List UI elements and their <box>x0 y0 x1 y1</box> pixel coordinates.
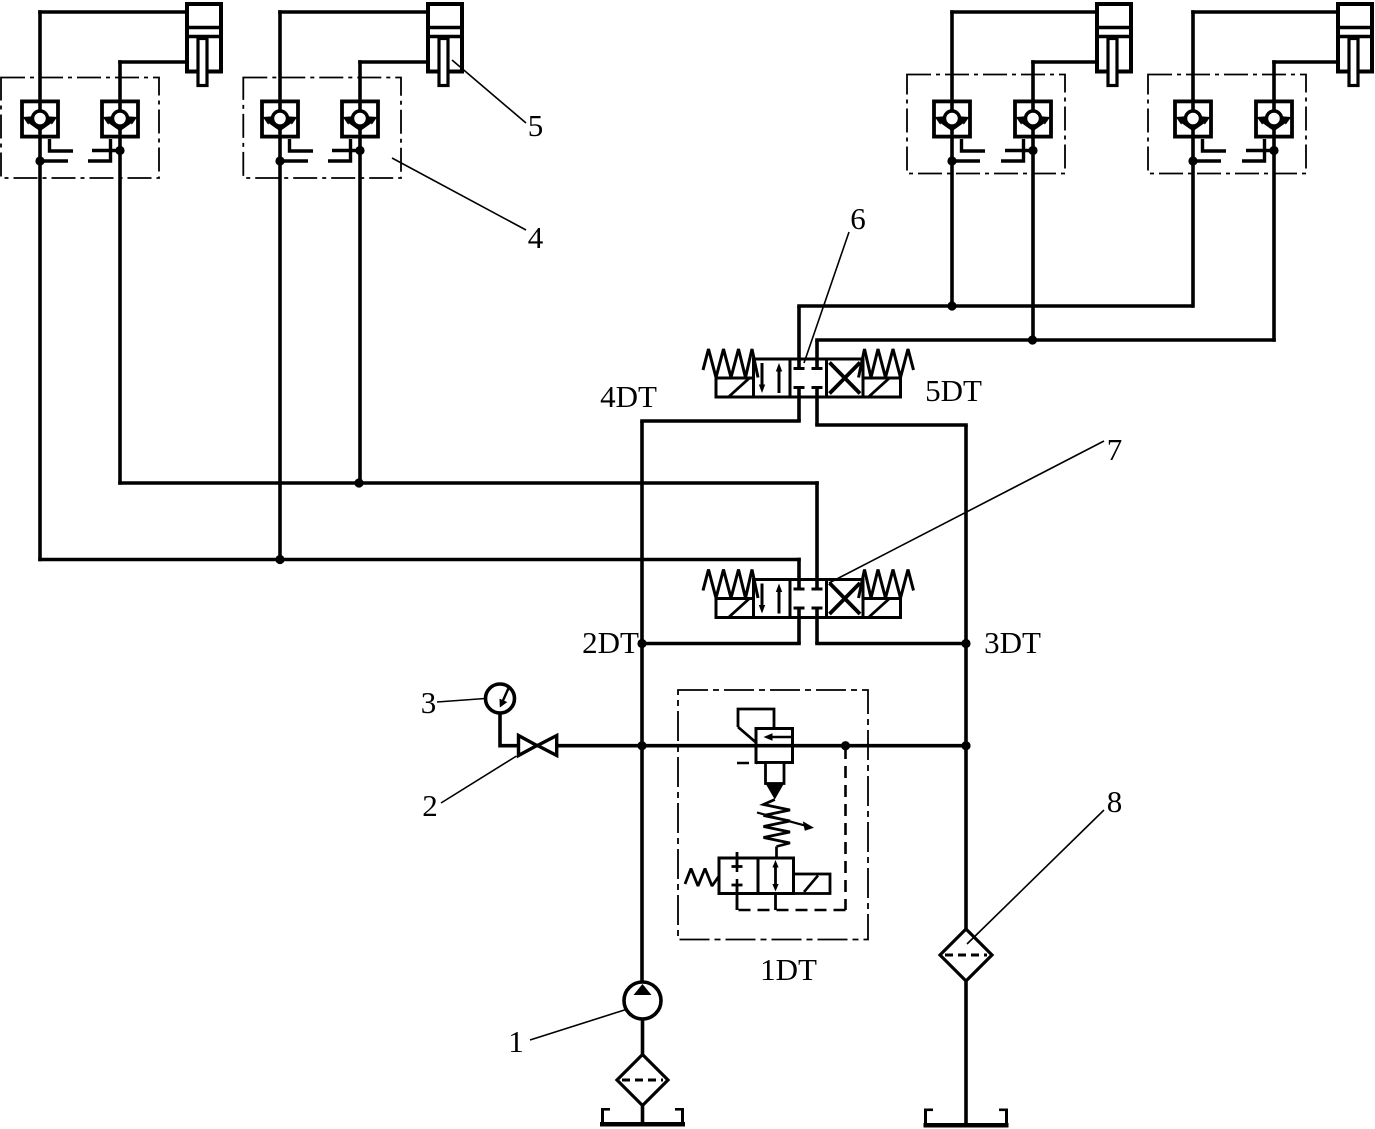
label 1 leader <box>530 1010 626 1041</box>
pilot line C lower-left <box>952 159 980 162</box>
svg-text:1: 1 <box>508 1024 524 1059</box>
unload solenoid 1DT <box>794 874 831 894</box>
wire cyl1 rod-side down <box>38 10 42 561</box>
unload valve body <box>719 858 794 894</box>
label 4DT <box>600 379 657 414</box>
unload valve arrow <box>772 860 778 892</box>
svg-text:3DT: 3DT <box>984 625 1041 660</box>
check valve D-right <box>1256 101 1292 136</box>
spring 7 (lower) left <box>703 570 758 599</box>
shut-off valve 2 <box>519 736 557 756</box>
label 2 <box>422 788 438 823</box>
wire cyl2 rod-side down <box>278 10 282 559</box>
wire valve6 A up+across <box>797 306 1194 369</box>
pilot line B upper-right <box>332 149 360 152</box>
pilot line B lower-right <box>328 139 351 161</box>
junction dot B right main <box>355 146 364 155</box>
junction dot C right main <box>1028 146 1037 155</box>
valve 6 (upper) body <box>754 359 864 397</box>
return filter 8 <box>940 929 992 981</box>
node 3DT junction <box>961 639 970 648</box>
relief cone <box>766 784 785 800</box>
suction filter <box>617 1055 668 1106</box>
wire cyl2 head-side down <box>358 60 362 483</box>
check valve B-right <box>342 101 378 136</box>
pilot line dashed <box>737 747 846 910</box>
label 6 leader <box>804 232 849 363</box>
wire 4 (top-right) bottom port <box>1272 60 1339 64</box>
wire cyl4 head-side down <box>1272 60 1276 342</box>
valve 7 (lower) center-position blocked ports <box>794 580 823 618</box>
junction dot D left main <box>1188 156 1197 165</box>
wire 3 bottom port <box>1031 60 1098 64</box>
junction dot C left main <box>947 156 956 165</box>
label 3 leader <box>437 699 485 703</box>
label 4 <box>528 220 544 255</box>
wire valve7 T to return <box>815 608 966 644</box>
hydraulic lock box B <box>243 78 401 179</box>
valve 7 (lower) right-position crossed arrows <box>830 583 861 614</box>
wire 1 (top-left) top port <box>38 10 188 14</box>
wire return to tank <box>964 981 968 1125</box>
wire return riser <box>964 425 968 930</box>
node valve7-A / cyl2 <box>275 555 284 564</box>
cylinder 4 (top-right) <box>1338 4 1372 86</box>
svg-text:4DT: 4DT <box>600 379 657 414</box>
node pilot vent tee <box>841 741 850 750</box>
junction dot D right main <box>1269 146 1278 155</box>
check valve D-left <box>1175 101 1211 136</box>
svg-text:6: 6 <box>850 201 866 236</box>
wire pump pressure riser <box>640 421 644 981</box>
check valve A-left <box>22 101 58 136</box>
label 5 leader <box>452 60 526 123</box>
relief poppet <box>766 763 785 784</box>
svg-text:1DT: 1DT <box>760 952 817 987</box>
wire valve7 B <box>118 481 819 589</box>
svg-text:8: 8 <box>1107 784 1123 819</box>
label 2 leader <box>441 756 517 803</box>
relief main valve arrow <box>764 733 792 741</box>
spring 6 (upper) right <box>859 349 914 378</box>
solenoid 6 (upper) left <box>716 378 754 398</box>
valve 6 (upper) right-position crossed arrows <box>830 363 861 394</box>
valve 7 (lower) left-position arrows <box>759 584 782 614</box>
pilot line C lower-right <box>1001 139 1024 161</box>
svg-text:2: 2 <box>422 788 438 823</box>
label 1DT <box>760 952 817 987</box>
svg-text:5DT: 5DT <box>925 373 982 408</box>
wire valve6 P down-left <box>640 388 801 422</box>
check valve A-right <box>102 101 138 136</box>
svg-text:3: 3 <box>421 685 437 720</box>
pilot line C upper-left <box>962 139 986 151</box>
spring 6 (upper) left <box>703 349 758 378</box>
wire 1 (top-left) bottom port <box>118 60 188 64</box>
pilot line A upper-right <box>92 149 120 152</box>
cylinder 2 <box>428 4 462 86</box>
pilot line D lower-left <box>1193 159 1221 162</box>
node valve6-B / cyl4 <box>1028 335 1037 344</box>
unload valve spring <box>685 869 719 887</box>
valve 7 (lower) body <box>754 580 864 618</box>
spring 7 (lower) right <box>859 570 914 599</box>
wire cyl4 rod-side down <box>1191 10 1195 308</box>
unload valve stubs <box>737 852 776 910</box>
pilot line D lower-right <box>1242 139 1265 161</box>
solenoid 7 (lower) right <box>863 598 901 618</box>
wire 2 top port <box>278 10 429 14</box>
label 8 leader <box>967 810 1104 944</box>
solenoid 7 (lower) left <box>716 598 754 618</box>
label 3 <box>421 685 437 720</box>
relief vent flag <box>738 709 774 743</box>
svg-text:4: 4 <box>528 220 544 255</box>
cylinder 1 (top-left) <box>187 4 221 86</box>
wire cyl1 head-side down <box>118 60 122 485</box>
check valve C-left <box>934 101 970 136</box>
label 5 <box>528 108 544 143</box>
relief spring <box>764 800 791 859</box>
tank right <box>924 1109 1009 1126</box>
pump 1 <box>624 982 661 1019</box>
hydraulic lock box A <box>1 78 159 179</box>
pilot line C upper-right <box>1005 149 1033 152</box>
pressure gauge 3 <box>486 684 515 748</box>
label 6 <box>850 201 866 236</box>
wire valve6 T down-right <box>815 388 968 426</box>
check valve C-right <box>1015 101 1051 136</box>
wire filter to tank <box>641 1106 645 1125</box>
relief adjust arrow <box>757 813 814 831</box>
wire 2 bottom port <box>358 60 429 64</box>
label 3DT <box>984 625 1041 660</box>
pilot line A lower-right <box>88 139 111 161</box>
hydraulic lock box C <box>907 75 1065 174</box>
check valve B-left <box>262 101 298 136</box>
pilot line D upper-right <box>1246 149 1274 152</box>
svg-text:7: 7 <box>1107 432 1123 467</box>
wire cyl3 rod-side down <box>950 10 954 306</box>
wire 4 (top-right) top port <box>1191 10 1339 14</box>
wire pump suction <box>641 1019 645 1056</box>
valve 6 (upper) left-position arrows <box>759 363 782 393</box>
node pump tee <box>637 741 646 750</box>
label 7 <box>1107 432 1123 467</box>
unload valve blocked ports <box>732 858 743 894</box>
pilot line B lower-left <box>280 159 308 162</box>
label 2DT <box>582 625 639 660</box>
svg-text:2DT: 2DT <box>582 625 639 660</box>
wire main pressure line <box>500 744 966 748</box>
wire valve7 P to pump line <box>642 608 801 644</box>
pilot line A upper-left <box>50 139 74 151</box>
node 2DT junction <box>637 639 646 648</box>
svg-text:5: 5 <box>528 108 544 143</box>
pilot line A lower-left <box>40 159 68 162</box>
tank left <box>600 1108 685 1124</box>
junction dot B left main <box>275 156 284 165</box>
label 1 <box>508 1024 524 1059</box>
label 5DT <box>925 373 982 408</box>
relief main valve <box>756 729 793 763</box>
wire 3 top port <box>950 10 1098 14</box>
label 8 <box>1107 784 1123 819</box>
wire valve7 A <box>38 558 801 589</box>
label 7 leader <box>829 441 1104 583</box>
label 4 leader <box>392 158 526 230</box>
pilot line B upper-left <box>290 139 314 151</box>
node valve6-A / cyl3 <box>947 301 956 310</box>
hydraulic lock box D <box>1148 75 1306 174</box>
junction dot A right main <box>115 146 124 155</box>
pilot line D upper-left <box>1203 139 1227 151</box>
wire valve6 B up+across <box>815 340 1276 369</box>
junction dot A left main <box>35 156 44 165</box>
node return tee <box>961 741 970 750</box>
wire cyl3 head-side down <box>1031 60 1035 340</box>
valve 6 (upper) center-position blocked ports <box>794 359 823 397</box>
node valve7-B / cyl2 <box>354 478 363 487</box>
relief assembly outer box <box>678 690 868 940</box>
cylinder 3 <box>1097 4 1131 86</box>
solenoid 6 (upper) right <box>863 378 901 398</box>
